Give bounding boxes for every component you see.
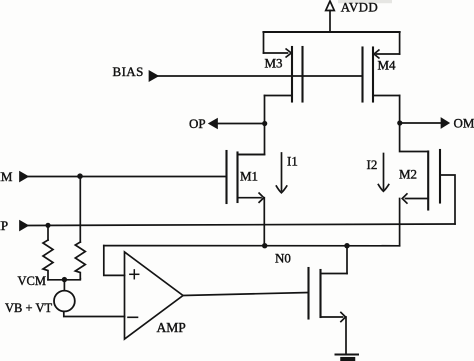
wire: N0 to AMP non-inverting input (104, 246, 125, 276)
input arrow BIAS (150, 72, 158, 81)
input arrow IP (20, 221, 28, 230)
svg-text:M4: M4 (378, 58, 397, 73)
node OP junction (262, 121, 267, 126)
wire: M2 source down to N0 (399, 199, 401, 246)
op-amp U1 AMP (125, 252, 184, 339)
wire: IM to M1 gate (27, 176, 227, 178)
wire: BIAS to gates of M3 M4 (156, 75, 363, 77)
resistor R2 (75, 242, 85, 279)
svg-text:N0: N0 (275, 251, 291, 266)
wire: VCM to source VB+VT (63, 280, 65, 291)
wire: source to AMP inverting input (64, 311, 125, 316)
wire: OP (217, 123, 265, 125)
plus input marking (130, 270, 139, 279)
svg-text:OP: OP (189, 116, 206, 131)
svg-text:AVDD: AVDD (341, 0, 378, 15)
wire: M2 gate to IP line (440, 175, 455, 224)
ground (336, 355, 359, 360)
node OM junction (397, 120, 402, 125)
svg-text:OM: OM (454, 116, 474, 131)
transistor M4 (363, 48, 400, 102)
svg-text:AMP: AMP (157, 320, 186, 335)
wire: tail source down to ground (345, 317, 347, 355)
wire: tail node N0 (104, 245, 400, 247)
svg-text:BIAS: BIAS (113, 64, 144, 79)
node N0 junction right (344, 243, 349, 248)
node IM junction (77, 173, 83, 179)
input arrow IM (20, 172, 28, 181)
svg-text:IM: IM (0, 169, 13, 184)
wire: rail to M3 source (263, 32, 265, 53)
node VCM junction (62, 277, 67, 282)
wire: OM (400, 122, 442, 124)
wire: M3 drain down to OP node and M1 drain (238, 96, 265, 155)
svg-text:M1: M1 (240, 169, 258, 184)
svg-text:IP: IP (0, 218, 8, 233)
svg-text:I1: I1 (287, 154, 298, 169)
wire: VCM node joining resistors (48, 279, 80, 280)
wire: AMP output to tail transistor gate (183, 293, 309, 296)
wire: M4 drain down to OM node and M2 drain (400, 96, 428, 152)
wire: IP node down to resistor R1 (47, 225, 49, 240)
wire: top supply rail (264, 31, 400, 33)
minus input marking (128, 316, 138, 318)
current arrow I2 (378, 154, 389, 192)
wire: rail to M4 source (399, 32, 401, 54)
power symbol AVDD (326, 1, 335, 32)
svg-text:VCM: VCM (18, 274, 46, 288)
transistor M2 (402, 150, 440, 210)
output arrow OM (442, 119, 449, 128)
wire: IM node down to resistor R2 (79, 177, 81, 243)
transistor M3 (264, 47, 303, 102)
transistor M1 (227, 151, 265, 203)
svg-text:M3: M3 (265, 56, 283, 71)
transistor Q5 tail (309, 268, 348, 322)
wire: IP line to M2 gate riser (27, 224, 455, 226)
node N0 junction left (262, 243, 267, 248)
svg-text:VB + VT: VB + VT (5, 301, 52, 315)
current arrow I1 (276, 153, 287, 193)
svg-text:I2: I2 (367, 157, 378, 172)
wire: tail drain up to N0 (346, 246, 348, 274)
svg-text:M2: M2 (399, 167, 417, 182)
node IP junction (45, 223, 50, 228)
resistor R1 (43, 240, 53, 280)
wire: M1 source down to N0 (263, 198, 265, 246)
voltage source VB+VT (54, 291, 75, 312)
output arrow OP (210, 119, 218, 128)
